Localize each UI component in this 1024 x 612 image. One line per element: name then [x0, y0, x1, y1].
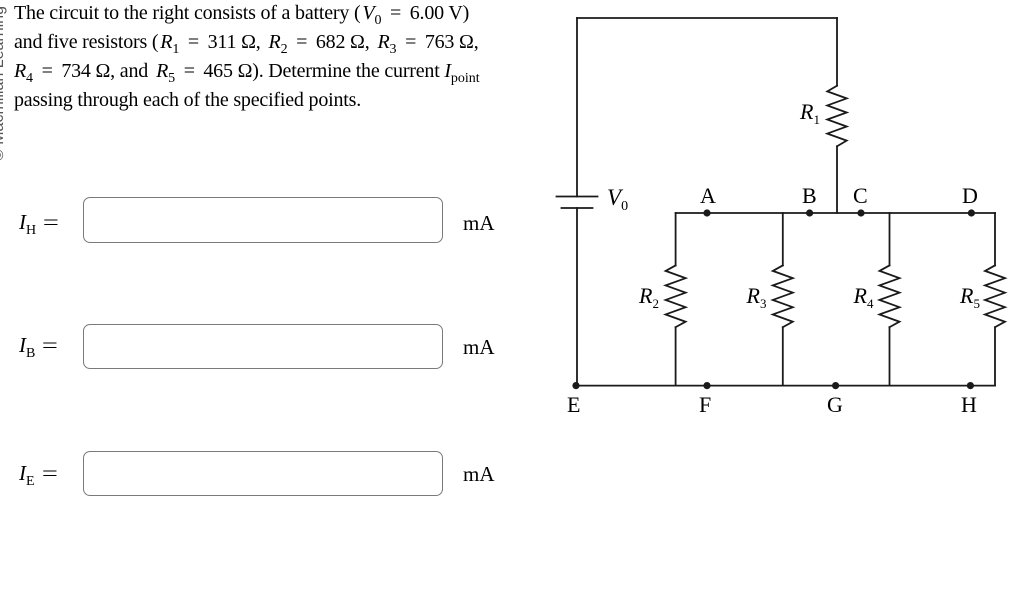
wire: R1 top lead: [836, 18, 838, 86]
row 3 input box: [83, 451, 443, 497]
node G dot: [832, 382, 839, 389]
node D dot: [968, 209, 975, 216]
svg-text:H: H: [961, 392, 977, 417]
svg-text:R5: R5: [959, 283, 980, 311]
wire: R5 branch top lead: [994, 213, 996, 265]
problem statement text: [14, 0, 480, 116]
wire: R4 branch bottom lead: [889, 327, 891, 385]
wire: top horizontal from battery to R1: [577, 17, 837, 19]
wire: R3 branch bottom lead: [782, 327, 784, 385]
row 1 unit: [463, 211, 495, 236]
row 1 label: [19, 210, 57, 235]
node C dot: [857, 209, 864, 216]
wire: R4 branch top lead: [889, 213, 891, 265]
wire: bottom bus: [576, 385, 995, 387]
svg-text:V0: V0: [607, 185, 628, 214]
svg-text:G: G: [827, 392, 843, 417]
row 1 input box: [83, 197, 443, 243]
node A dot: [703, 209, 710, 216]
node F dot: [703, 382, 710, 389]
svg-text:C: C: [853, 183, 868, 208]
resistor R2 zigzag: [666, 265, 686, 327]
resistor R3 zigzag: [773, 265, 793, 327]
battery V0 bottom plate: [562, 207, 593, 209]
wire: R1 bottom lead: [836, 146, 838, 213]
resistor R1 zigzag: [827, 86, 846, 147]
svg-text:F: F: [699, 392, 711, 417]
svg-text:R2: R2: [638, 283, 659, 311]
svg-text:R4: R4: [853, 283, 874, 311]
svg-text:B: B: [802, 183, 817, 208]
node H dot: [967, 382, 974, 389]
wire: R2 branch bottom lead: [675, 327, 677, 385]
wire: battery top lead: [576, 18, 578, 197]
wire: R3 branch top lead: [782, 213, 784, 265]
row 2 label: [19, 333, 56, 358]
node E dot: [572, 382, 579, 389]
svg-text:D: D: [962, 183, 978, 208]
row 3 label: [19, 461, 55, 486]
row 2 input box: [83, 324, 443, 370]
svg-text:A: A: [700, 183, 716, 208]
wire: R2 branch top lead: [675, 213, 677, 265]
svg-text:R3: R3: [746, 283, 767, 311]
resistor R4 zigzag: [880, 265, 900, 327]
vertical copyright strip: [0, 6, 8, 161]
resistor R5 zigzag: [985, 265, 1005, 327]
svg-text:E: E: [567, 392, 580, 417]
node B dot: [806, 209, 813, 216]
row 2 unit: [463, 335, 495, 360]
battery V0 top plate: [557, 196, 598, 198]
row 3 unit: [463, 462, 495, 487]
wire: battery bottom lead: [576, 208, 578, 386]
wire: R5 branch bottom lead: [994, 327, 996, 385]
svg-text:R1: R1: [799, 99, 820, 127]
wire: top bus: [676, 212, 995, 214]
